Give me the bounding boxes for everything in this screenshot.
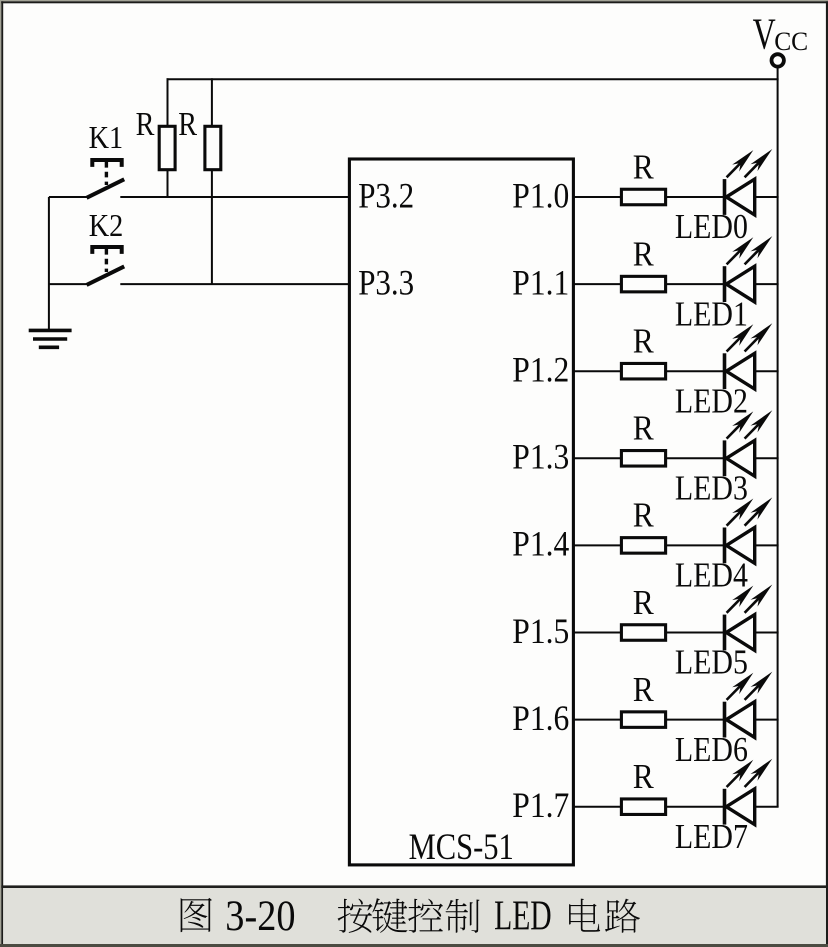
resistor R (row 6) <box>621 712 665 728</box>
wire P1.5 pin to resistor <box>573 632 621 634</box>
wire resistor to LED7 <box>666 806 725 808</box>
caption CJK char 键 <box>372 898 407 933</box>
svg-text:R: R <box>633 148 654 186</box>
caption CJK char 控 <box>408 899 443 933</box>
wire P1.4 pin to resistor <box>573 544 621 546</box>
switch K2 arm <box>87 266 125 285</box>
wire LED1 to VCC bus <box>755 283 779 285</box>
svg-text:P1.3: P1.3 <box>512 437 569 477</box>
svg-text:LED3: LED3 <box>675 470 748 508</box>
LED3 light arrow 1 <box>727 422 743 438</box>
LED0 light arrow 2 <box>745 160 762 177</box>
LED4 cathode bar <box>723 528 727 564</box>
wire resistor to LED6 <box>666 719 725 721</box>
svg-text:P1.5: P1.5 <box>512 611 569 651</box>
LED7 light arrow 2 <box>745 770 762 787</box>
svg-text:R: R <box>136 106 155 143</box>
LED4 light arrow 2 <box>745 509 762 526</box>
svg-text:P1.1: P1.1 <box>512 262 569 302</box>
svg-text:LED6: LED6 <box>675 731 748 769</box>
wire top rail horizontal <box>167 78 779 80</box>
LED0 triangle <box>726 179 754 215</box>
switch K1 actuator dashed stem <box>105 162 108 185</box>
LED6 light arrow 2 <box>745 683 762 700</box>
svg-text:R: R <box>633 584 654 622</box>
wire LED5 to VCC bus <box>755 632 779 634</box>
svg-text:LED5: LED5 <box>675 644 748 682</box>
wire LED6 to VCC bus <box>755 719 779 721</box>
svg-text:P1.4: P1.4 <box>512 524 569 564</box>
switch K1 arm <box>87 179 125 198</box>
resistor R (row 4) <box>621 538 665 554</box>
LED0 light arrow 1 <box>727 161 743 177</box>
caption CJK char 图 <box>181 898 212 932</box>
svg-text:LED2: LED2 <box>675 382 748 420</box>
wire K2 left terminal <box>49 283 88 285</box>
outer frame olive edge <box>0 0 828 1</box>
svg-text:3-20: 3-20 <box>225 893 295 940</box>
LED5 cathode bar <box>723 615 727 651</box>
LED6 light arrow 1 <box>727 684 743 700</box>
caption CJK char 制 <box>446 899 480 933</box>
wire P1.3 pin to resistor <box>573 457 621 459</box>
svg-text:P3.3: P3.3 <box>358 262 414 302</box>
LED3 light arrow 2 <box>745 422 762 439</box>
wire resistor to LED1 <box>666 283 725 285</box>
svg-text:R: R <box>633 671 654 709</box>
wire resistor to LED5 <box>666 632 725 634</box>
wire LED3 to VCC bus <box>755 457 779 459</box>
LED6 triangle <box>726 702 754 738</box>
switch K1 pushbutton actuator <box>92 160 121 167</box>
svg-text:CC: CC <box>774 27 808 56</box>
wire pullup R1 top lead <box>167 78 169 127</box>
LED1 cathode bar <box>723 266 727 302</box>
svg-text:R: R <box>633 323 654 361</box>
switch K2 pushbutton actuator <box>92 247 121 254</box>
wire K1 right terminal to MCS-51 <box>120 196 349 198</box>
caption CJK char 路 <box>605 899 640 933</box>
resistor R (row 3) <box>621 451 665 467</box>
wire P1.1 pin to resistor <box>573 283 621 285</box>
LED7 light arrow 1 <box>727 771 743 787</box>
svg-text:R: R <box>178 106 197 143</box>
wire resistor to LED3 <box>666 457 725 459</box>
LED2 light arrow 1 <box>727 335 743 351</box>
svg-text:K2: K2 <box>89 207 124 243</box>
LED1 light arrow 2 <box>745 247 762 264</box>
resistor R (row 2) <box>621 363 665 379</box>
LED0 cathode bar <box>723 179 727 215</box>
LED5 light arrow 1 <box>727 596 743 612</box>
svg-text:R: R <box>633 758 654 796</box>
wire P1.6 pin to resistor <box>573 719 621 721</box>
LED4 light arrow 1 <box>727 509 743 525</box>
svg-text:P3.2: P3.2 <box>358 175 414 215</box>
wire resistor to LED2 <box>666 370 725 372</box>
wire VCC bus vertical <box>777 67 779 807</box>
wire LED7 to VCC bus <box>755 806 779 808</box>
wire K2 right terminal to MCS-51 <box>120 283 349 285</box>
LED2 light arrow 2 <box>745 334 762 351</box>
svg-text:LED0: LED0 <box>675 208 748 246</box>
LED5 triangle <box>726 615 754 651</box>
ground symbol <box>29 329 72 333</box>
wire LED4 to VCC bus <box>755 544 779 546</box>
resistor R (row 5) <box>621 625 665 641</box>
switch K2 actuator dashed stem <box>105 249 108 272</box>
LED2 cathode bar <box>723 353 727 389</box>
svg-text:LED: LED <box>494 892 552 939</box>
wire ground vertical <box>48 197 50 330</box>
LED1 triangle <box>726 266 754 302</box>
wire P1.7 pin to resistor <box>573 806 621 808</box>
wire LED2 to VCC bus <box>755 370 779 372</box>
caption band top border <box>1 885 827 888</box>
wire pullup R1 bottom lead to P3.2 net <box>167 170 169 198</box>
LED2 triangle <box>726 353 754 389</box>
svg-text:R: R <box>633 497 654 535</box>
resistor R (row 1) <box>621 276 665 292</box>
outer frame dark border <box>1 1 828 3</box>
LED7 cathode bar <box>723 789 727 825</box>
resistor R (pullup 1) <box>159 126 175 169</box>
caption band fill <box>3 888 826 944</box>
caption band bottom dark strip <box>0 944 828 947</box>
svg-text:P1.2: P1.2 <box>512 350 569 390</box>
LED7 triangle <box>726 789 754 825</box>
resistor R (pullup 2) <box>205 126 221 169</box>
svg-text:LED7: LED7 <box>675 818 748 856</box>
wire K1 left terminal <box>49 196 88 198</box>
LED3 cathode bar <box>723 440 727 476</box>
svg-text:R: R <box>633 410 654 448</box>
wire resistor to LED4 <box>666 544 725 546</box>
wire LED0 to VCC bus <box>755 196 779 198</box>
resistor R (row 0) <box>621 189 665 205</box>
caption CJK char 按 <box>338 899 373 933</box>
caption CJK char 电 <box>569 899 600 932</box>
VCC terminal circle <box>772 54 784 66</box>
svg-text:P1.6: P1.6 <box>512 698 569 738</box>
wire pullup R2 bottom lead to P3.3 net <box>211 170 213 285</box>
wire resistor to LED0 <box>666 196 725 198</box>
svg-text:P1.7: P1.7 <box>512 785 569 825</box>
LED5 light arrow 2 <box>745 596 762 613</box>
resistor R (row 7) <box>621 799 665 815</box>
op IC MCS-51 box <box>349 159 573 865</box>
svg-text:LED1: LED1 <box>675 295 748 333</box>
LED4 triangle <box>726 528 754 564</box>
LED1 light arrow 1 <box>727 248 743 264</box>
svg-text:LED4: LED4 <box>675 557 748 595</box>
svg-text:V: V <box>753 9 776 59</box>
svg-text:MCS-51: MCS-51 <box>409 827 514 868</box>
wire P1.2 pin to resistor <box>573 370 621 372</box>
wire pullup R2 top lead <box>211 78 213 127</box>
svg-text:K1: K1 <box>89 119 124 155</box>
LED6 cathode bar <box>723 702 727 738</box>
svg-text:R: R <box>633 235 654 273</box>
svg-text:P1.0: P1.0 <box>512 175 569 215</box>
LED3 triangle <box>726 440 754 476</box>
wire P1.0 pin to resistor <box>573 196 621 198</box>
